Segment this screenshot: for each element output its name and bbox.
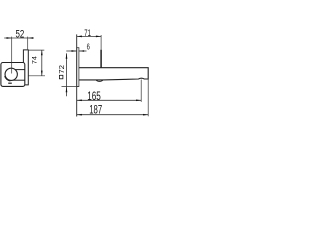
dim sq72 bottom ext line [62, 85, 79, 87]
outlet shadow arc [5, 76, 10, 81]
dim 6 right arrow [79, 50, 84, 52]
svg-text:6: 6 [87, 41, 90, 51]
dim 52 right ext line [27, 37, 29, 50]
pin side view [100, 50, 102, 68]
svg-text:52: 52 [16, 29, 25, 41]
dim 6 right tail [79, 50, 87, 52]
tube top edge front view [15, 69, 25, 71]
dim 187 right arrow [143, 114, 148, 116]
wall plate front view [1, 63, 25, 87]
spout body side view [79, 68, 148, 80]
dim sq72 line [66, 53, 68, 96]
dim 6 left arrow [72, 50, 77, 52]
dim 52 right arrow [28, 37, 33, 39]
dim sq72 square symbol [59, 75, 63, 79]
dim 165 left arrow [77, 99, 82, 101]
dim 187 line [77, 114, 149, 116]
pin front view [23, 50, 28, 85]
dim 71 left arrow [77, 36, 82, 38]
dim 71 line [77, 35, 101, 37]
dim 52 left arrow [7, 37, 12, 39]
dim 71 right arrow [96, 36, 101, 38]
svg-text:187: 187 [89, 103, 102, 117]
aerator dash [8, 82, 12, 84]
dim 6 left tail [66, 50, 76, 52]
dim 165 right ext line [140, 80, 142, 102]
dim 165 right arrow [136, 99, 141, 101]
spout underside bump [96, 80, 103, 82]
wall plate side view [77, 48, 79, 87]
spout outlet circle [5, 68, 17, 80]
dim 165 line [77, 99, 142, 101]
dim 52 line [4, 37, 33, 39]
dim 74 bottom arrow [41, 71, 43, 76]
dim 74 bottom ext line [28, 75, 45, 77]
svg-text:165: 165 [87, 89, 101, 103]
dim 74 line [41, 50, 43, 76]
dim 187 left arrow [77, 114, 82, 116]
dim 74 top arrow [41, 50, 43, 55]
dim 52 left ext line [11, 37, 13, 74]
wall line side view [76, 34, 78, 116]
tube bottom edge front view [13, 79, 25, 81]
svg-text:74: 74 [32, 56, 39, 64]
dim sq72 top arrow [66, 53, 68, 58]
dim 71 right ext line [100, 35, 102, 50]
dim 74 top ext line [28, 49, 44, 51]
dim sq72 bottom arrow [66, 87, 68, 92]
svg-text:71: 71 [84, 27, 91, 38]
dim 187 right ext line [147, 79, 149, 116]
svg-text:72: 72 [57, 65, 66, 74]
